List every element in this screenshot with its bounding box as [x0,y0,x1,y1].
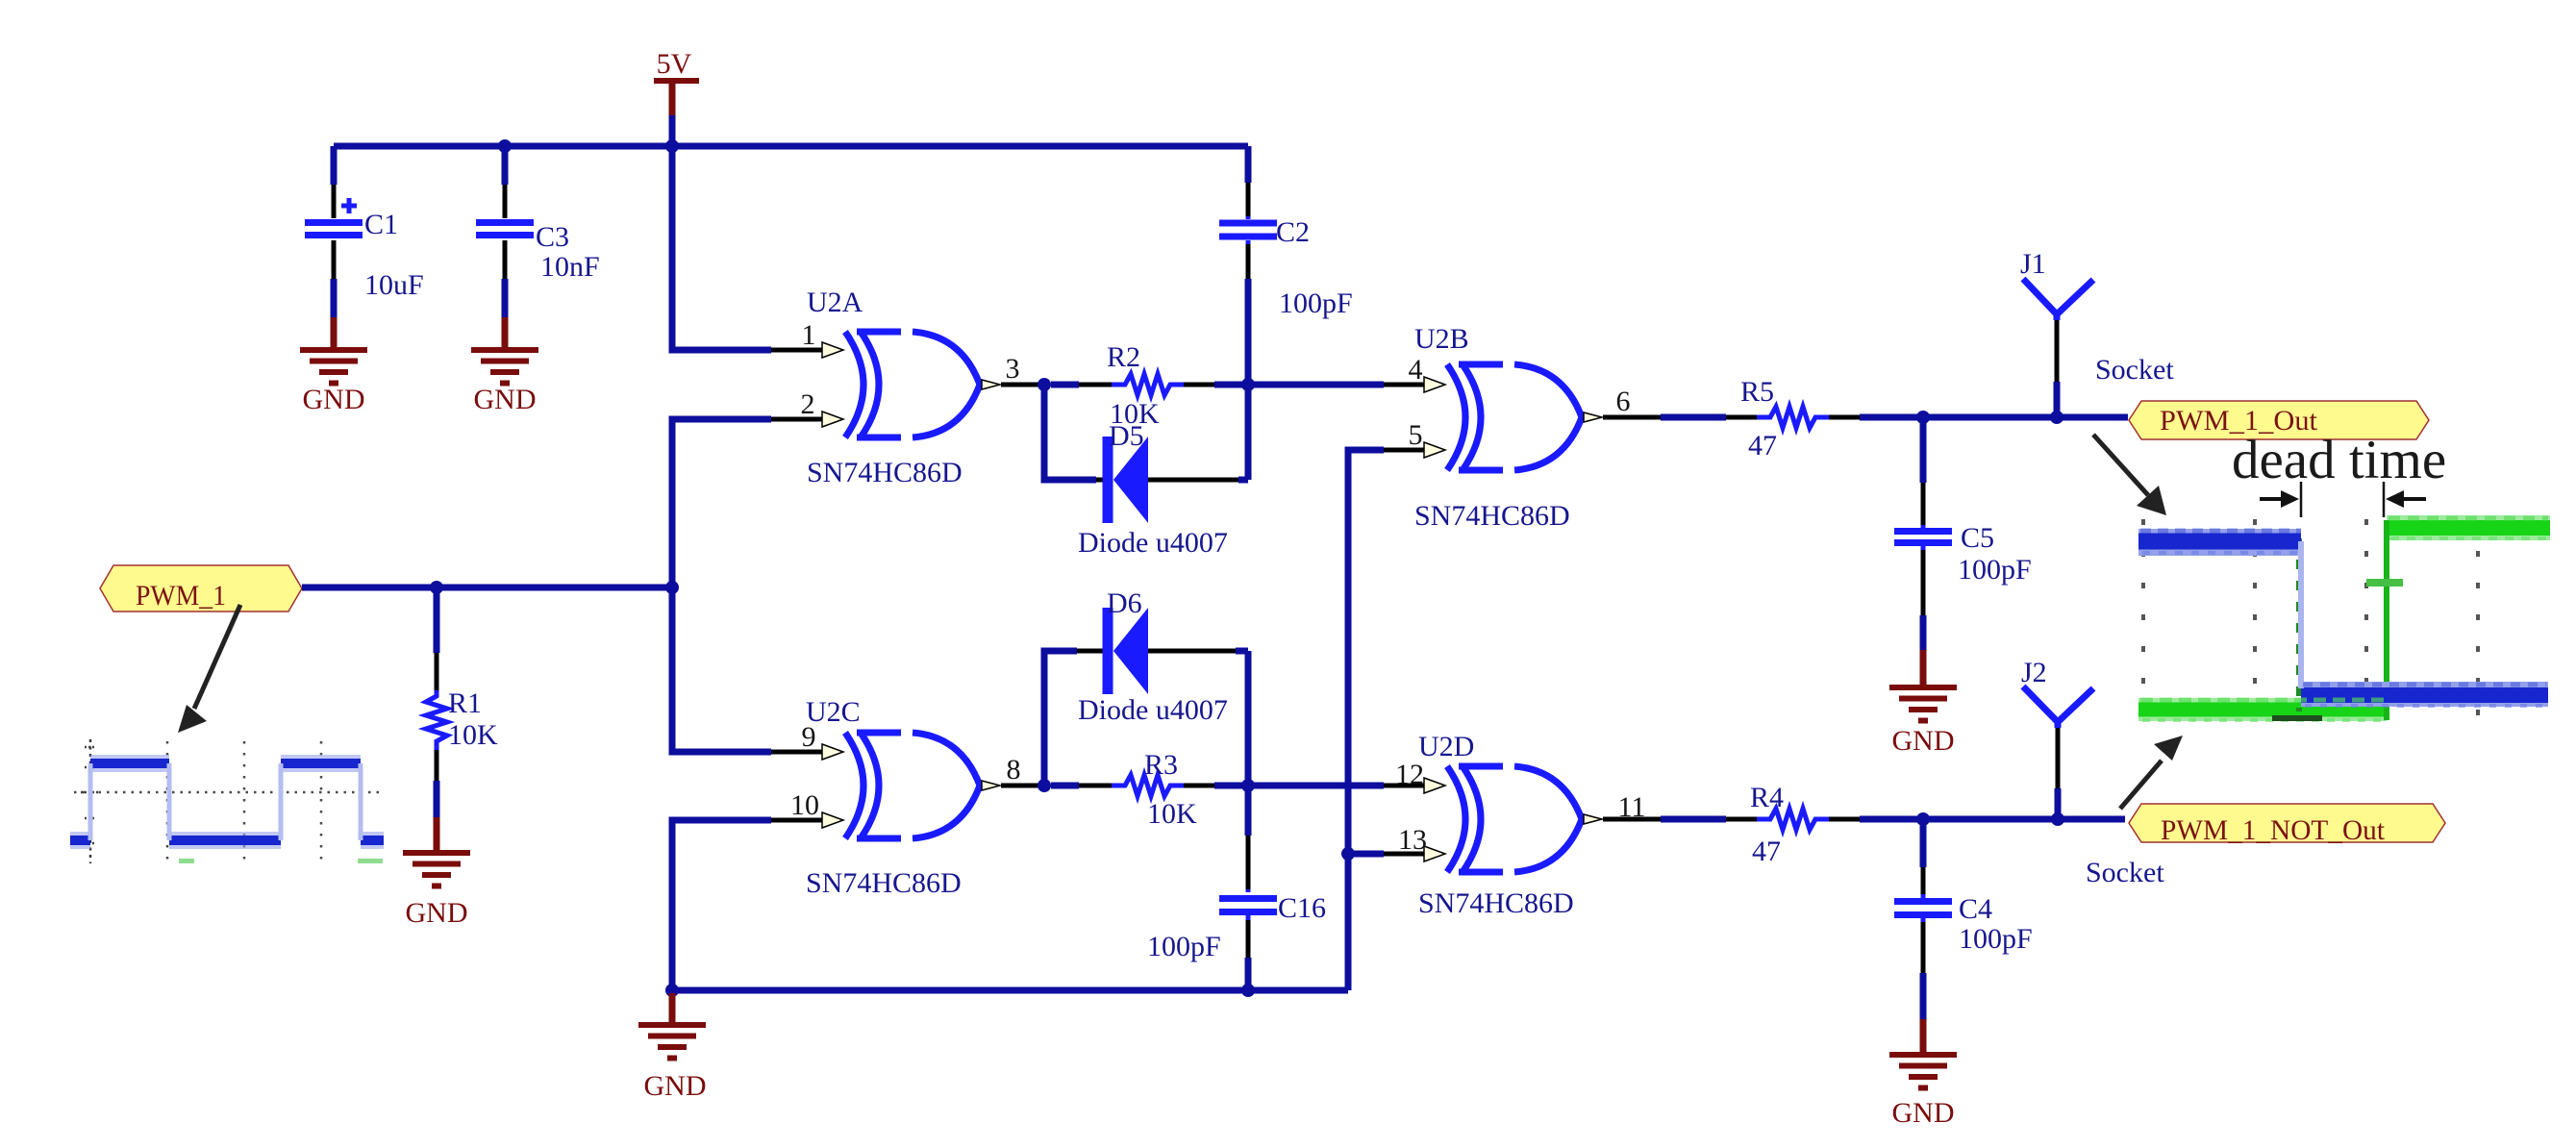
oscilloscope dead-time image (right) [2138,518,2550,724]
diode D6 [1078,587,1228,726]
svg-text:U2B: U2B [1414,323,1469,355]
scope vertical gridlines dotted [167,741,321,861]
annotation arrow from PWM_1_NOT_Out to dead-time scope [2120,736,2183,809]
XOR gate U2B [1414,323,1602,532]
svg-text:PWM_1: PWM_1 [136,580,226,611]
pin 1 of U2A [771,348,822,353]
ground under C4 [1889,1019,1957,1129]
capacitor C2 [1219,146,1353,385]
svg-text:6: 6 [1616,386,1631,417]
svg-text:13: 13 [1398,824,1427,856]
blue trace low core [2301,687,2548,703]
resistor R3 [1051,749,1248,830]
blue falling edge [2298,541,2304,688]
svg-text:U2C: U2C [806,696,861,728]
XOR gate U2C [806,696,1000,899]
5V power symbol [654,48,699,115]
port PWM_1 [100,565,302,611]
svg-text:100pF: 100pF [1959,923,2033,955]
svg-text:GND: GND [406,897,468,929]
blue trace core [70,763,384,840]
pin 8 of U2C [1001,784,1043,788]
diode D5 bypass wires [1044,385,1096,480]
trace noise fuzz [2140,529,2301,534]
wire PWM_1 up to U2A pin2 [672,419,771,587]
pin 10 of U2C [771,818,822,823]
junction top rail at 5V [665,139,679,153]
wire 5V stem to top rail [669,115,676,146]
junction at PWM_1 riser [665,581,679,594]
svg-text:GND: GND [303,384,365,415]
wire top 5V rail [334,143,1248,150]
resistor R2 [1051,341,1248,430]
wire PWM_1 down to U2C pin9 [672,587,771,752]
svg-text:47: 47 [1748,430,1777,462]
junction at J1 [2050,411,2063,424]
capacitor C16 [1147,786,1326,990]
svg-text:R3: R3 [1144,749,1178,781]
ground at bottom rail [638,993,707,1102]
pin 4 of U2B [1384,383,1424,387]
wire GND riser to U2B pin5 [1348,450,1384,990]
svg-text:10uF: 10uF [364,269,424,301]
svg-text:SN74HC86D: SN74HC86D [806,867,962,899]
svg-text:C1: C1 [364,209,398,240]
blue trace high halo [2138,529,2301,556]
junction at GND stem [665,984,679,997]
svg-text:R1: R1 [448,687,482,719]
svg-text:10K: 10K [1147,798,1197,830]
svg-text:SN74HC86D: SN74HC86D [807,457,963,488]
svg-text:12: 12 [1395,759,1424,790]
svg-text:GND: GND [1892,1097,1955,1129]
svg-text:R5: R5 [1740,376,1774,408]
scope gridlines dotted vertical [2143,519,2478,724]
svg-text:Socket: Socket [2086,857,2164,888]
junction at R3 right / C16 node [1241,779,1255,792]
green rising edge [2384,520,2389,720]
scope grid center dotted line [74,791,385,794]
pin 11 of U2D [1603,817,1661,822]
green trigger level marker [2366,579,2403,586]
scope axis ticks [81,747,100,843]
svg-text:11: 11 [1618,791,1646,823]
capacitor C4 [1894,819,2033,1021]
ground under R1 [403,817,470,929]
svg-text:GND: GND [474,384,537,415]
blue trace high core [2138,534,2301,550]
junction at R1 [430,581,443,594]
wire 5V rail down to U2A pin1 [672,146,771,350]
annotation arrow from PWM_1 to waveform [178,605,240,733]
connector J1 [2020,248,2174,417]
svg-text:10nF: 10nF [540,251,600,283]
svg-text:100pF: 100pF [1147,931,1221,962]
port PWM_1_Out [2129,401,2429,439]
pin 12 of U2D [1384,784,1424,788]
svg-text:SN74HC86D: SN74HC86D [1418,887,1574,919]
svg-text:C3: C3 [536,221,569,253]
svg-text:R4: R4 [1750,782,1784,813]
junction at U2A output node [1038,378,1051,391]
resistor R5 [1661,376,2128,462]
svg-text:U2A: U2A [807,287,863,318]
pin 5 of U2B [1384,448,1424,453]
junction at U2D pin13 branch [1341,847,1355,861]
scope vertical axis dotted [89,739,92,863]
XOR gate U2D [1418,731,1602,919]
wire PWM_1 horizontal [302,585,672,591]
green trace high core [2387,520,2550,536]
svg-text:2: 2 [801,388,815,420]
svg-text:R2: R2 [1107,341,1140,373]
svg-text:C16: C16 [1278,892,1326,924]
pin 2 of U2A [771,417,822,422]
svg-text:dead time: dead time [2232,430,2446,490]
svg-text:100pF: 100pF [1279,287,1353,319]
svg-text:J2: J2 [2021,657,2047,688]
resistor R4 [1661,782,2125,867]
svg-text:8: 8 [1007,754,1021,786]
diode D6 bypass wires [1044,651,1077,786]
pin 6 of U2B [1603,415,1661,420]
svg-text:GND: GND [1892,725,1955,757]
resistor R1 [426,587,498,819]
junction at C5 [1916,411,1930,424]
svg-text:1: 1 [802,319,816,351]
wire GND rail up to U2C pin10 [672,820,771,990]
pin 3 of U2A [1001,383,1043,387]
oscilloscope waveform image PWM_1 (left) [70,739,385,863]
svg-text:10K: 10K [448,719,498,751]
svg-text:SN74HC86D: SN74HC86D [1414,500,1570,532]
blue trace halo [70,763,384,840]
capacitor C1 [305,146,424,319]
green trace low halo [2138,698,2387,721]
svg-text:C2: C2 [1276,216,1310,248]
svg-text:PWM_1_NOT_Out: PWM_1_NOT_Out [2161,814,2386,846]
svg-text:10: 10 [790,789,819,821]
svg-text:Diode u4007: Diode u4007 [1078,694,1228,726]
svg-text:5: 5 [1409,419,1423,451]
junction at C4 [1916,812,1930,826]
green dashed edge at blue fall [2296,538,2302,711]
dark bottom marker [2272,715,2322,721]
blue trace low halo [2301,682,2548,707]
diode D5 [1078,420,1228,559]
junction at J2 [2051,812,2064,826]
ground under C5 [1889,650,1957,757]
junction at C16 bottom [1241,984,1255,997]
pin 13 of U2D [1384,852,1424,857]
junction at R2 right / C2 node [1241,378,1255,391]
svg-text:47: 47 [1752,836,1781,867]
wire C2 node to U2B pin4 [1248,382,1384,388]
svg-text:Socket: Socket [2095,354,2174,386]
capacitor C3 [476,146,600,319]
wire GND riser to U2D pin13 [1348,851,1384,858]
blue trace edges [90,763,361,840]
svg-text:C4: C4 [1959,893,1992,925]
svg-text:J1: J1 [2020,248,2046,280]
green residue marks [179,859,194,863]
svg-text:4: 4 [1409,354,1423,386]
capacitor C5 [1894,417,2032,652]
svg-text:Diode u4007: Diode u4007 [1078,527,1228,559]
wire R3 node to U2D pin12 [1248,783,1384,789]
connector J2 [2021,657,2164,888]
junction top rail at C3 [498,139,512,153]
junction at U2C output node [1038,779,1051,792]
ground under C3 [471,317,538,415]
svg-text:U2D: U2D [1418,731,1474,762]
svg-text:C5: C5 [1961,522,1994,554]
dead time measurement markers [2260,482,2426,517]
svg-text:5V: 5V [657,48,692,80]
XOR gate U2A [807,287,1000,488]
svg-text:3: 3 [1006,353,1020,385]
green trace low core [2138,703,2387,717]
svg-text:D6: D6 [1107,587,1142,619]
svg-text:GND: GND [644,1070,707,1102]
wire bottom ground rail [672,987,1348,994]
port PWM_1_NOT_Out [2129,804,2445,846]
svg-text:100pF: 100pF [1958,554,2032,586]
pin 9 of U2C [771,750,822,755]
ground under C1 [300,317,367,415]
green trace high halo [2387,515,2550,540]
annotation arrow from PWM_1_Out to dead-time scope [2093,435,2166,515]
svg-text:D5: D5 [1109,420,1144,452]
